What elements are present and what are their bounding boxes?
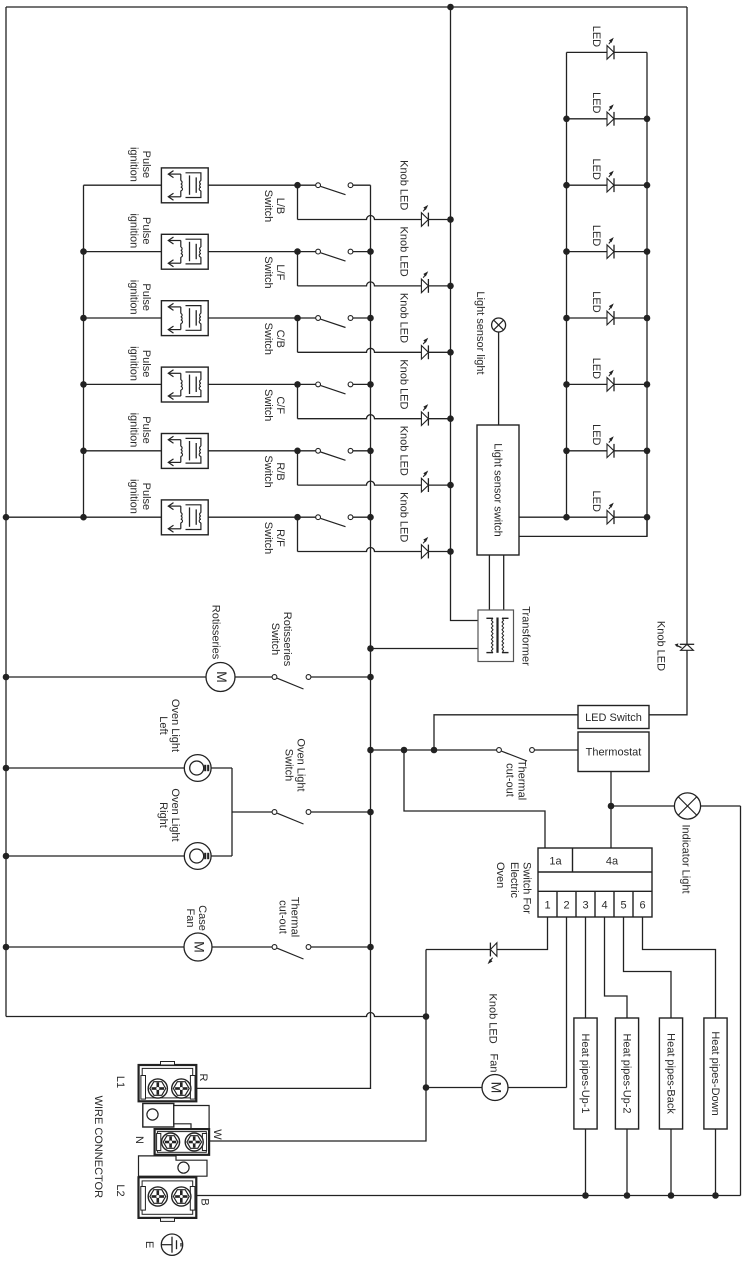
- LED: Knob LED 5: [421, 478, 428, 492]
- LED: Knob LED (oven switch): [490, 943, 497, 957]
- junction: return run to W bus: [423, 1013, 430, 1020]
- wire: knob LED branch drop 6: [297, 517, 299, 551]
- svg-text:Switch: Switch: [262, 455, 274, 487]
- svg-text:C/B: C/B: [274, 330, 286, 348]
- wire: thermal cut-out feed: [371, 749, 497, 751]
- svg-text:Light sensor switch: Light sensor switch: [492, 443, 504, 537]
- svg-text:Heat pipes-Back: Heat pipes-Back: [665, 1033, 677, 1114]
- wire: knob LED 3 to LED bus: [428, 351, 450, 353]
- svg-text:M: M: [489, 1082, 505, 1094]
- wire: transformer secondary lead 1: [488, 555, 490, 612]
- heater: Heat pipes-Down: [704, 1018, 727, 1129]
- junction: left rail oven light left tap: [3, 765, 10, 772]
- svg-text:Oven Light: Oven Light: [295, 738, 307, 791]
- wire: knob LED branch drop 4: [297, 384, 299, 418]
- wire: igniter 1 output: [208, 184, 297, 186]
- svg-text:LED: LED: [590, 158, 602, 179]
- connector: block L2/B: [139, 1177, 197, 1218]
- wire: right return run: [740, 806, 742, 1196]
- wire: case fan switch to bus: [311, 946, 371, 948]
- wire: W bus: [194, 950, 426, 1142]
- connector: link piece A: [143, 1104, 174, 1128]
- wire: oven lights joint: [231, 768, 233, 856]
- svg-text:ignition: ignition: [128, 413, 140, 448]
- wire: ladder LED 5 cathode lead: [614, 317, 647, 319]
- wire: ladder LED 5 anode lead: [567, 317, 608, 319]
- svg-text:4: 4: [601, 899, 607, 911]
- wire: oven light right feed: [6, 855, 184, 857]
- junction: left rail rotisseries tap: [3, 674, 10, 681]
- terminal screw L1-b (R): [172, 1079, 191, 1098]
- svg-text:Thermal: Thermal: [516, 760, 528, 800]
- svg-text:Indicator Light: Indicator Light: [680, 824, 692, 893]
- svg-text:cut-out: cut-out: [503, 763, 515, 797]
- junction: feed bus row 2: [80, 248, 87, 255]
- junction: switch bus oven light tap: [367, 809, 374, 816]
- svg-text:LED: LED: [590, 291, 602, 312]
- wire: thermostat output: [610, 772, 612, 849]
- junction: LED switch branch: [431, 747, 438, 754]
- LED: Knob LED 4: [421, 412, 428, 426]
- svg-text:LED: LED: [590, 92, 602, 113]
- svg-text:C/F: C/F: [274, 396, 286, 414]
- junction: switch bus row 6: [367, 514, 374, 521]
- wire: sensor switch output A to ladder: [519, 516, 567, 518]
- wire: to switch C/B: [298, 317, 316, 319]
- LED: ladder LED 1: [607, 46, 614, 60]
- wire: ladder LED 6 anode lead: [567, 383, 608, 385]
- junction: ladder left rail row 3: [563, 182, 570, 189]
- svg-text:ignition: ignition: [128, 479, 140, 514]
- igniter: Pulse ignition 2 (L/F): [161, 234, 208, 269]
- terminal screw L2-b (B): [172, 1187, 191, 1206]
- wire: knob LED branch drop 2: [297, 252, 299, 286]
- junction: LED bus row 5: [447, 482, 454, 489]
- junction: Heat pipes-Up-2 on B bus: [624, 1192, 631, 1199]
- switch: Thermal cut-out (oven): [497, 748, 502, 753]
- heater: Heat pipes-Up-2: [615, 1018, 638, 1129]
- wire: switch R/F output to bus: [353, 516, 371, 518]
- wire: pin 1 to knob LED: [497, 917, 548, 950]
- switch: Oven Light Switch: [272, 810, 277, 815]
- junction: switch bus rotisseries tap: [367, 674, 374, 681]
- LED: ladder LED 2: [607, 112, 614, 126]
- box: Light sensor switch: [477, 425, 519, 555]
- svg-text:Light sensor light: Light sensor light: [474, 291, 486, 374]
- wire: igniter 3 output: [208, 317, 297, 319]
- svg-text:R/F: R/F: [274, 529, 286, 547]
- wire: thermal cut-out to Thermostat: [534, 749, 578, 751]
- wire: feed to igniter 6: [84, 516, 162, 518]
- junction: LED bus row 1: [447, 216, 454, 223]
- wire: ladder LED 1 anode lead: [567, 51, 608, 53]
- motor: Fan M: [482, 1075, 508, 1101]
- wire: knob LED 5 to LED bus: [428, 484, 450, 486]
- svg-text:L/B: L/B: [274, 198, 286, 215]
- svg-text:M: M: [214, 671, 230, 683]
- LED: ladder LED 3: [607, 178, 614, 192]
- wire: knob LED 6 to LED bus: [428, 551, 450, 553]
- svg-text:Switch: Switch: [269, 623, 281, 655]
- wire: knob LED row 1 (hops switch bus): [298, 216, 422, 220]
- svg-text:Thermal: Thermal: [289, 897, 301, 937]
- svg-text:LED Switch: LED Switch: [585, 712, 642, 724]
- junction: LED bus row 4: [447, 415, 454, 422]
- wire: pin 6 to Heat pipes-Down: [643, 917, 716, 1018]
- svg-text:1a: 1a: [549, 856, 562, 868]
- connector: link piece B: [139, 1156, 208, 1176]
- junction: Heat pipes-Up-1 on B bus: [582, 1192, 589, 1199]
- LED: Knob LED 6: [421, 545, 428, 559]
- wire: ladder LED 8 cathode lead: [614, 516, 647, 518]
- wire: igniter 5 output: [208, 450, 297, 452]
- box: Thermostat: [578, 732, 649, 772]
- junction: 1a branch: [401, 747, 408, 754]
- svg-text:Knob LED: Knob LED: [398, 359, 410, 409]
- svg-text:R: R: [197, 1074, 209, 1082]
- svg-text:Switch: Switch: [262, 389, 274, 421]
- terminal screw N-b (W): [185, 1133, 203, 1151]
- svg-text:Knob LED: Knob LED: [398, 426, 410, 476]
- svg-text:Electric: Electric: [508, 862, 520, 899]
- wire: case fan motor to switch: [212, 946, 272, 948]
- wire: feed to igniter 2: [84, 251, 162, 253]
- junction: LED bus row 2: [447, 283, 454, 290]
- ground: earth terminal E: [161, 1234, 182, 1255]
- wire: feed to igniter 5: [84, 450, 162, 452]
- svg-text:Knob LED: Knob LED: [398, 492, 410, 542]
- svg-text:E: E: [143, 1241, 155, 1248]
- wire: to switch R/B: [298, 450, 316, 452]
- wire: knob LED row 6 (hops switch bus): [298, 548, 422, 552]
- wire: feed to igniter 4: [84, 383, 162, 385]
- junction: knob LED branch row 5: [294, 448, 301, 455]
- junction: feed bus row 5: [80, 448, 87, 455]
- wire: Heat pipes-Up-1 return: [585, 1129, 587, 1196]
- svg-text:Rotisseries: Rotisseries: [281, 612, 293, 667]
- svg-text:L1: L1: [114, 1076, 126, 1088]
- svg-text:Switch: Switch: [262, 256, 274, 288]
- LED: ladder LED 5: [607, 311, 614, 325]
- junction: W bus fan tap: [423, 1084, 430, 1091]
- wire: switch output bus (down to R feed): [370, 185, 372, 1088]
- junction: LED bus row 3: [447, 349, 454, 356]
- LED: Knob LED 2: [421, 279, 428, 293]
- svg-text:Switch: Switch: [262, 323, 274, 355]
- wire: LED ladder right rail: [646, 52, 648, 536]
- svg-text:Knob LED: Knob LED: [398, 160, 410, 210]
- switch: Rotisseries Switch: [272, 675, 277, 680]
- svg-text:B: B: [198, 1198, 210, 1205]
- svg-text:LED: LED: [590, 358, 602, 379]
- svg-text:LED: LED: [590, 26, 602, 47]
- box: Switch For Electric Oven: [538, 848, 652, 917]
- wire: switch L/F output to bus: [353, 251, 371, 253]
- wire: B line bus: [181, 1195, 741, 1197]
- box: LED Switch: [578, 706, 649, 729]
- junction: Heat pipes-Back on B bus: [668, 1192, 675, 1199]
- svg-text:2: 2: [563, 899, 569, 911]
- svg-text:Knob LED: Knob LED: [655, 621, 667, 671]
- svg-text:4a: 4a: [606, 856, 619, 868]
- connector: block N/W: [155, 1129, 210, 1155]
- switch: R/F Switch: [316, 515, 321, 520]
- svg-text:ignition: ignition: [128, 213, 140, 248]
- junction: ladder left rail row 2: [563, 116, 570, 123]
- lamp: Light sensor light: [492, 318, 506, 332]
- svg-text:Pulse: Pulse: [140, 483, 152, 511]
- svg-text:Heat pipes-Down: Heat pipes-Down: [709, 1031, 721, 1115]
- svg-text:Oven: Oven: [494, 862, 506, 888]
- svg-text:ignition: ignition: [128, 280, 140, 315]
- wire: pin 3 to Heat pipes-Up-1: [585, 917, 587, 1018]
- motor: Case Fan M: [184, 933, 212, 961]
- wire: knob LED 1 to LED bus: [428, 219, 450, 221]
- wire: knob LED branch drop 1: [297, 185, 299, 219]
- wire: bottom-left return run (hops over switch bus): [6, 1013, 426, 1017]
- lamp: Indicator Light: [674, 793, 700, 819]
- wire: to switch L/B: [298, 184, 316, 186]
- switch: C/F Switch: [316, 382, 321, 387]
- junction: ladder right rail row 8: [644, 514, 651, 521]
- svg-text:Heat pipes-Up-2: Heat pipes-Up-2: [621, 1033, 633, 1113]
- svg-text:Right: Right: [157, 802, 169, 828]
- motor: Rotisseries M: [206, 663, 235, 692]
- svg-text:Oven Light: Oven Light: [169, 699, 181, 752]
- connector: block L1/R: [139, 1065, 197, 1101]
- junction: left rail oven light right tap: [3, 853, 10, 860]
- svg-text:3: 3: [582, 899, 588, 911]
- wire: ladder LED 1 cathode lead: [614, 51, 647, 53]
- junction: LED bus row 6: [447, 548, 454, 555]
- junction: indicator branch: [608, 803, 615, 810]
- svg-text:Pulse: Pulse: [140, 151, 152, 179]
- svg-text:Knob LED: Knob LED: [398, 293, 410, 343]
- svg-text:L/F: L/F: [274, 264, 286, 280]
- junction: ladder left rail row 6: [563, 381, 570, 388]
- igniter: Pulse ignition 6 (R/F): [161, 500, 208, 535]
- wire: feed to igniter 1: [84, 184, 162, 186]
- wire: W bus to fan: [426, 1087, 482, 1089]
- wire: sensor lamp lead: [498, 332, 500, 425]
- wire: switch R/B output to bus: [353, 450, 371, 452]
- svg-text:ignition: ignition: [128, 346, 140, 381]
- wire: knob LED 2 to LED bus: [428, 285, 450, 287]
- svg-text:Fan: Fan: [488, 1054, 500, 1073]
- heater: Heat pipes-Up-1: [574, 1018, 597, 1129]
- wire: oven light right to joint: [211, 855, 232, 857]
- svg-text:Switch: Switch: [262, 190, 274, 222]
- junction: switch bus row 3: [367, 315, 374, 322]
- LED: Knob LED (LED switch): [681, 644, 694, 650]
- svg-text:Oven Light: Oven Light: [169, 788, 181, 841]
- wire: rotisseries motor to switch: [235, 676, 272, 678]
- igniter: Pulse ignition 3 (C/B): [161, 301, 208, 336]
- transformer: box: [478, 610, 514, 662]
- junction: switch bus row 4: [367, 381, 374, 388]
- wire: oven light left to joint: [211, 767, 232, 769]
- wire: knob LED row 5 (hops switch bus): [298, 481, 422, 485]
- junction: ladder left rail row 8: [563, 514, 570, 521]
- wire: ladder LED 6 cathode lead: [614, 383, 647, 385]
- wire: ladder LED 7 anode lead: [567, 450, 608, 452]
- svg-text:cut-out: cut-out: [276, 900, 288, 934]
- wire: switch C/F output to bus: [353, 383, 371, 385]
- junction: switch bus case fan tap: [367, 944, 374, 951]
- junction: knob LED branch row 4: [294, 381, 301, 388]
- wire: rotisseries switch to bus: [311, 676, 371, 678]
- wire: LED ladder left rail: [566, 52, 568, 517]
- wire: oven lights to switch: [232, 811, 272, 813]
- heater: Heat pipes-Back: [659, 1018, 682, 1129]
- terminal screw N-a: [162, 1133, 180, 1151]
- svg-text:Knob LED: Knob LED: [398, 227, 410, 277]
- junction: ladder left rail row 7: [563, 448, 570, 455]
- svg-text:Rotisseries: Rotisseries: [210, 605, 222, 660]
- junction: ladder right rail row 2: [644, 116, 651, 123]
- wire: branch to oven switch 1a: [404, 750, 545, 848]
- wire: right rail from top to LED Switch knob LED: [686, 7, 688, 644]
- wire: oven light left feed: [6, 767, 184, 769]
- wire: ladder LED 2 anode lead: [567, 118, 608, 120]
- svg-text:Pulse: Pulse: [140, 416, 152, 444]
- wire: knob LED row 4 (hops switch bus): [298, 415, 422, 419]
- svg-text:W: W: [211, 1129, 223, 1140]
- junction: feed bus row 3: [80, 315, 87, 322]
- wire: knob LED to W bus: [426, 949, 490, 951]
- wire: knob LED 4 to LED bus: [428, 418, 450, 420]
- svg-text:LED: LED: [590, 424, 602, 445]
- svg-text:WIRE CONNECTOR: WIRE CONNECTOR: [92, 1096, 104, 1199]
- wire: indicator to right return: [701, 805, 741, 807]
- wire: Heat pipes-Up-2 return: [626, 1129, 628, 1196]
- junction: ladder right rail row 3: [644, 182, 651, 189]
- junction: switch bus transformer tap: [367, 645, 374, 652]
- wire: ladder LED 8 anode lead: [567, 516, 608, 518]
- svg-text:5: 5: [620, 899, 626, 911]
- wire: feed from left rail: [6, 516, 84, 518]
- lamp: Oven Light Right: [184, 843, 211, 870]
- wire: igniter 2 output: [208, 251, 297, 253]
- switch: Thermal cut-out (case fan): [272, 945, 277, 950]
- wire: LED Switch to right rail: [649, 650, 687, 715]
- wire: Heat pipes-Down return: [715, 1129, 717, 1196]
- terminal screw L2-a: [148, 1187, 167, 1206]
- wire: ladder LED 3 anode lead: [567, 184, 608, 186]
- wire: knob LED supply bus to transformer: [451, 7, 479, 621]
- wire: knob LED branch drop 5: [297, 451, 299, 485]
- wire: knob LED branch drop 3: [297, 318, 299, 352]
- LED: Knob LED 3: [421, 346, 428, 360]
- svg-text:Pulse: Pulse: [140, 283, 152, 311]
- LED: ladder LED 8: [607, 510, 614, 524]
- wire: pulse ignition feed bus: [83, 185, 85, 517]
- wire: ladder LED 7 cathode lead: [614, 450, 647, 452]
- wire: feed to igniter 3: [84, 317, 162, 319]
- svg-text:Thermostat: Thermostat: [586, 747, 642, 759]
- svg-text:R/B: R/B: [274, 462, 286, 480]
- wire: igniter 4 output: [208, 383, 297, 385]
- wire: Heat pipes-Back return: [670, 1129, 672, 1196]
- svg-text:Pulse: Pulse: [140, 350, 152, 378]
- svg-text:6: 6: [639, 899, 645, 911]
- node: top junction on supply rail: [447, 4, 454, 11]
- wire: igniter 6 output: [208, 516, 297, 518]
- svg-text:Switch: Switch: [262, 522, 274, 554]
- wire: case fan feed: [6, 946, 184, 948]
- wire: sensor switch output B to ladder right rail: [519, 517, 647, 536]
- LED: ladder LED 7: [607, 444, 614, 458]
- junction: switch bus thermal cut-out tap: [367, 747, 374, 754]
- svg-text:LED: LED: [590, 225, 602, 246]
- svg-text:Switch: Switch: [282, 749, 294, 781]
- wire: fan to pin 2: [508, 1087, 567, 1089]
- svg-text:Transformer: Transformer: [520, 606, 532, 666]
- wire: to switch C/F: [298, 383, 316, 385]
- wire: transformer secondary lead 2: [503, 555, 505, 612]
- wire: switch L/B output to bus: [353, 184, 371, 186]
- lamp: Oven Light Left: [184, 755, 211, 782]
- junction: ladder right rail row 6: [644, 381, 651, 388]
- switch: L/F Switch: [316, 249, 321, 254]
- LED: ladder LED 4: [607, 245, 614, 259]
- junction: knob LED branch row 3: [294, 315, 301, 322]
- svg-text:M: M: [192, 941, 208, 953]
- junction: ladder right rail row 5: [644, 315, 651, 322]
- wire: ladder LED 4 cathode lead: [614, 251, 647, 253]
- junction: ladder left rail row 5: [563, 315, 570, 322]
- switch: C/B Switch: [316, 316, 321, 321]
- wire: rotisseries feed: [6, 676, 206, 678]
- wire: branch to LED Switch: [434, 715, 578, 750]
- igniter: Pulse ignition 5 (R/B): [161, 434, 208, 469]
- svg-text:Knob LED: Knob LED: [487, 994, 499, 1044]
- igniter: Pulse ignition 4 (C/F): [161, 367, 208, 402]
- wire: transformer primary feed from switch bus: [371, 648, 479, 650]
- junction: left rail case fan tap: [3, 944, 10, 951]
- junction: feed bus bottom: [80, 514, 87, 521]
- svg-text:Left: Left: [157, 716, 169, 734]
- switch: L/B Switch: [316, 183, 321, 188]
- wire: ladder LED 4 anode lead: [567, 251, 608, 253]
- svg-text:Switch For: Switch For: [521, 862, 533, 914]
- wire: oven light switch to bus: [311, 811, 371, 813]
- wire: ladder LED 2 cathode lead: [614, 118, 647, 120]
- wire: left supply rail: [5, 7, 7, 1017]
- wire: pin 2 to fan: [566, 917, 568, 1088]
- LED: ladder LED 6: [607, 378, 614, 392]
- wire: R line from connector to switch bus: [181, 1087, 371, 1089]
- terminal screw L1-a: [148, 1079, 167, 1098]
- switch: R/B Switch: [316, 448, 321, 453]
- LED: Knob LED 1: [421, 213, 428, 227]
- wire: knob LED row 3 (hops switch bus): [298, 348, 422, 352]
- wire: to switch L/F: [298, 251, 316, 253]
- svg-text:N: N: [133, 1136, 145, 1144]
- wire: pin 4 to Heat pipes-Up-2: [605, 917, 628, 1018]
- wire: pin 5 to Heat pipes-Back: [624, 917, 672, 1018]
- wire: to switch R/F: [298, 516, 316, 518]
- junction: ladder right rail row 4: [644, 248, 651, 255]
- svg-text:LED: LED: [590, 490, 602, 511]
- junction: knob LED branch row 1: [294, 182, 301, 189]
- junction: left rail feed tap: [3, 514, 10, 521]
- wire: to indicator light: [611, 805, 674, 807]
- wire: top supply rail: [6, 6, 687, 8]
- junction: Heat pipes-Down on B bus: [712, 1192, 719, 1199]
- wire: knob LED row 2 (hops switch bus): [298, 282, 422, 286]
- wire: ladder LED 3 cathode lead: [614, 184, 647, 186]
